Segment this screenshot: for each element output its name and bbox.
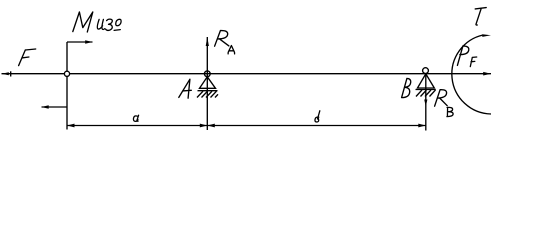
support B hatching <box>416 90 436 97</box>
label M of Mizg <box>73 12 93 32</box>
arrow M tip right <box>85 40 92 44</box>
arrow dim a right <box>200 124 208 128</box>
wire dimension line a+b <box>67 125 426 127</box>
support B triangle <box>418 74 435 88</box>
arrow F tip left <box>2 72 9 75</box>
label izg: letter z (Cyrillic з) <box>106 19 113 30</box>
label RA subscript A <box>228 46 235 54</box>
label B <box>402 78 411 97</box>
arrow RA tip up <box>206 37 209 46</box>
label Pf subscript F <box>470 57 476 67</box>
arrow dim b right <box>418 124 426 128</box>
label A <box>179 79 192 98</box>
wire F arrow tick <box>10 71 12 76</box>
label T <box>475 8 486 25</box>
label dim a <box>133 115 138 121</box>
arrow lower tip left <box>42 105 49 109</box>
wire beam shaft line <box>2 73 492 75</box>
wire vertical at left node x=67 <box>66 42 68 130</box>
label izg: letter g (Cyrillic г) <box>114 19 121 30</box>
support B ground line <box>416 89 436 91</box>
wire support B vertical centerline / RB line / extension <box>425 74 427 131</box>
arrow RB tip down <box>424 100 427 107</box>
support A triangle <box>200 77 216 89</box>
arrow T arc tip right <box>482 34 491 37</box>
label dim b <box>315 111 320 122</box>
support A ground line <box>198 90 218 92</box>
label izg: letter i (Cyrillic и) <box>97 19 104 29</box>
label RB subscript B <box>447 107 453 116</box>
wire support A vertical centerline / RA line / extension <box>206 37 208 130</box>
arrow Pf tip right <box>483 72 491 76</box>
support A hatching <box>197 91 218 97</box>
arrow dim b left <box>207 124 215 128</box>
label Pf P <box>457 46 468 66</box>
arrow dim a left <box>67 124 75 128</box>
wheel torque arc <box>452 35 491 114</box>
node left hinge circle <box>64 71 69 76</box>
label RA R <box>215 31 229 47</box>
wire lower offset-force line <box>42 106 68 108</box>
node B pin circle <box>423 68 429 74</box>
wire moment arrow horizontal <box>67 41 93 43</box>
label F <box>19 49 36 66</box>
node A pin circle <box>204 71 210 77</box>
label RB R <box>435 90 448 107</box>
